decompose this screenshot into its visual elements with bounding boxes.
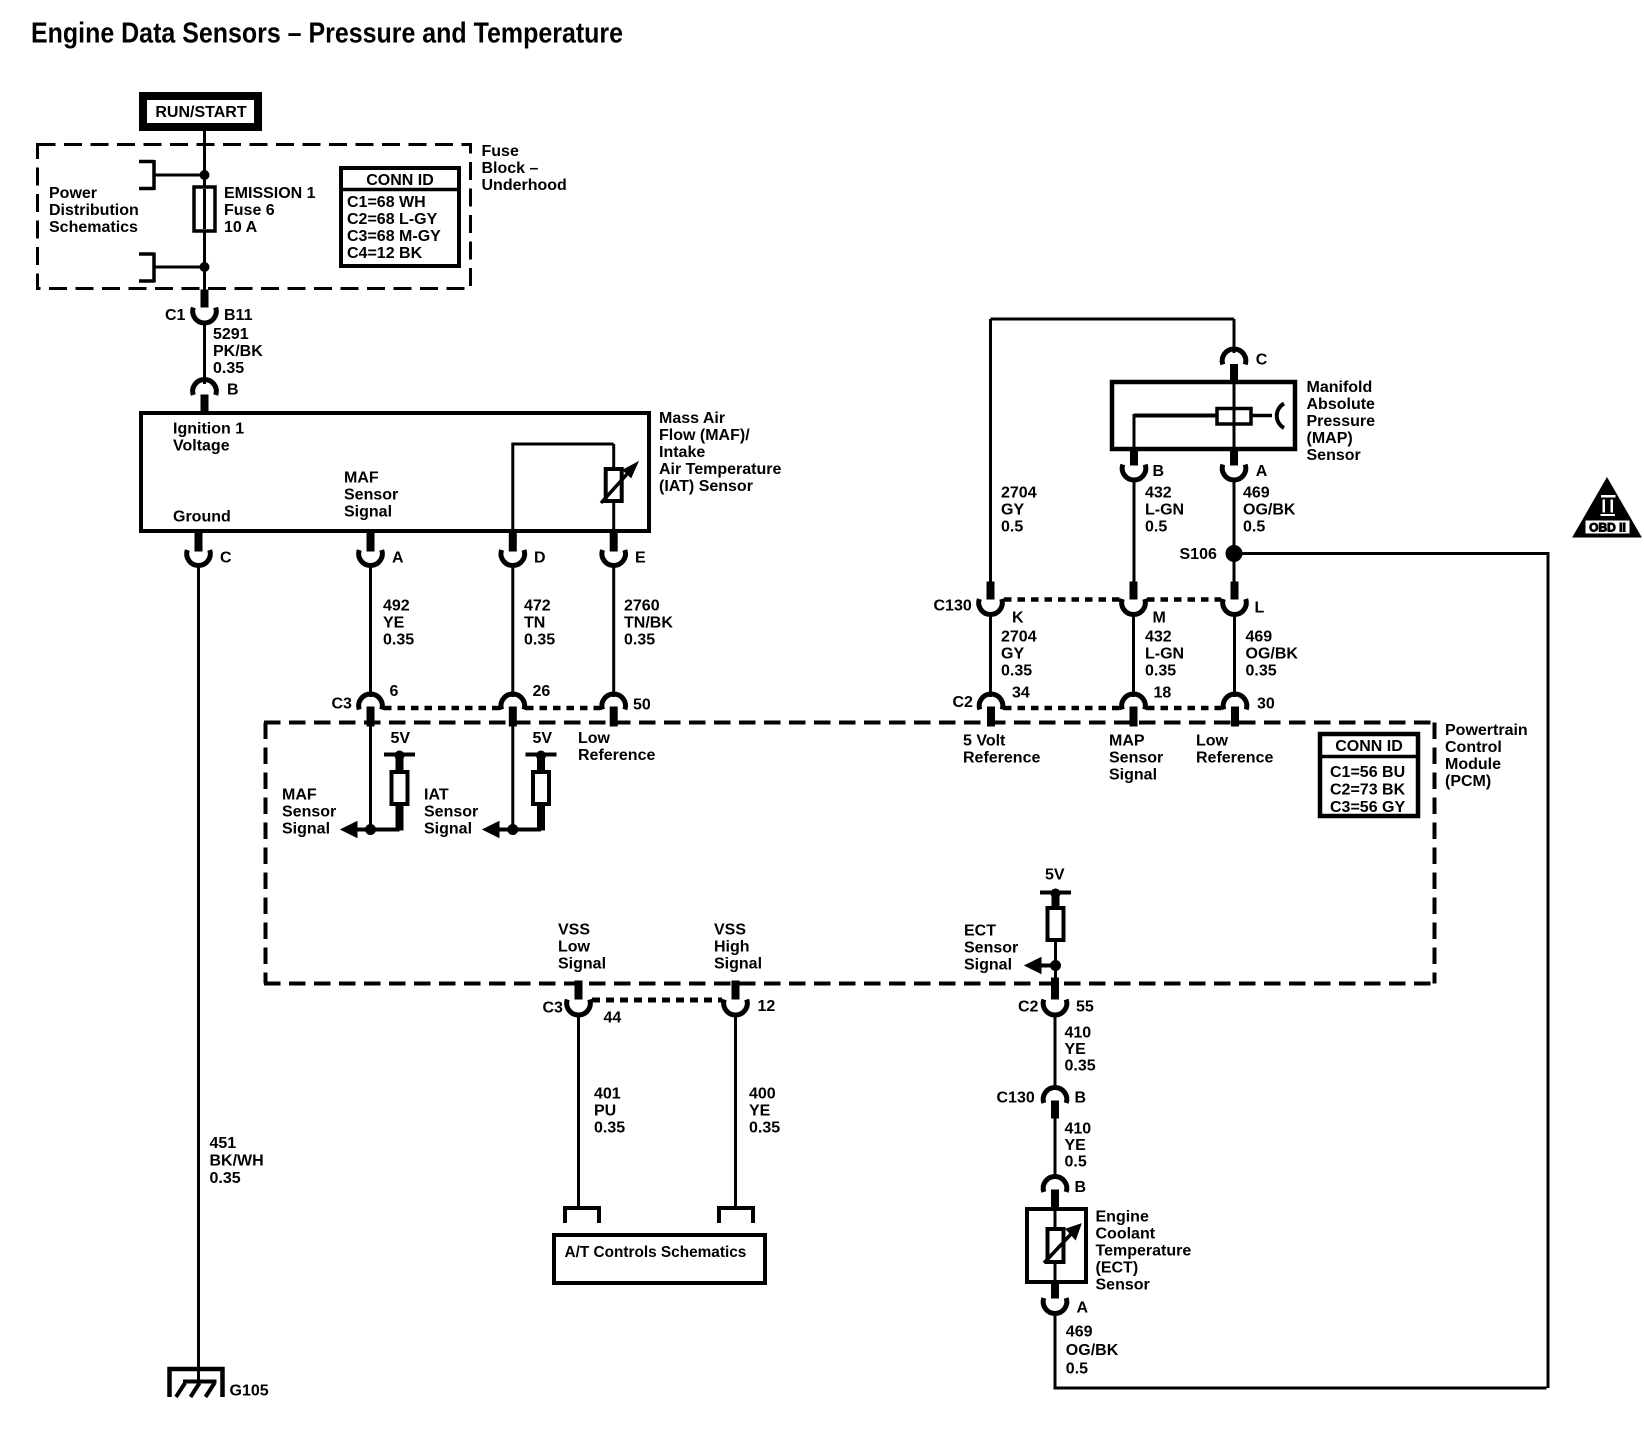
svg-text:26: 26 (533, 683, 551, 700)
svg-text:Sensor: Sensor (964, 940, 1018, 957)
svg-text:Distribution: Distribution (49, 202, 139, 219)
connector pin E of MAF/IAT sensor (602, 533, 626, 566)
svg-text:0.5: 0.5 (1145, 519, 1167, 536)
terminal bracket VSS low (565, 1208, 599, 1223)
svg-text:Fuse: Fuse (482, 143, 519, 160)
node junction at fuse top (200, 171, 209, 180)
svg-text:432: 432 (1145, 629, 1172, 646)
connector pin A of MAF/IAT sensor (359, 533, 383, 566)
resistor MAF pull-up (392, 772, 408, 830)
svg-text:492: 492 (383, 598, 410, 615)
svg-text:2704: 2704 (1001, 485, 1037, 502)
connector C2 pin 34 (979, 694, 1003, 726)
svg-text:5V: 5V (1045, 867, 1065, 884)
connector C3 body dotted (VSS) (592, 998, 722, 1003)
wire 5291 PK/BK 0.35 (203, 321, 206, 385)
svg-text:2760: 2760 (624, 598, 660, 615)
svg-text:MAF: MAF (282, 787, 317, 804)
svg-text:Low: Low (578, 730, 611, 747)
svg-text:OBD II: OBD II (1589, 521, 1626, 535)
svg-text:Powertrain: Powertrain (1445, 722, 1528, 739)
svg-text:C2: C2 (953, 694, 974, 711)
connector C3 pin 6 (359, 694, 383, 726)
svg-text:TN/BK: TN/BK (624, 615, 673, 632)
svg-text:Module: Module (1445, 756, 1501, 773)
svg-text:B11: B11 (224, 307, 253, 324)
wire S106 to ECT low reference (right loop) (1055, 552, 1548, 1388)
label fuse block (482, 143, 567, 194)
svg-text:Manifold: Manifold (1307, 379, 1373, 396)
svg-text:469: 469 (1243, 485, 1270, 502)
connector C1 pin B11 (193, 290, 217, 323)
svg-text:C: C (220, 550, 232, 567)
svg-text:50: 50 (633, 697, 651, 714)
svg-text:55: 55 (1076, 999, 1094, 1016)
svg-text:0.35: 0.35 (383, 632, 414, 649)
svg-text:C2=68 L-GY: C2=68 L-GY (347, 211, 438, 228)
wire IAT signal to junction (499, 726, 541, 830)
MAP vacuum port arc (1277, 404, 1284, 429)
svg-text:Low: Low (558, 939, 591, 956)
connector pin A of MAP sensor (1222, 451, 1246, 480)
splice S106 (1226, 546, 1242, 562)
svg-text:Air Temperature: Air Temperature (659, 461, 782, 478)
terminal bracket VSS high (719, 1208, 753, 1223)
svg-text:Signal: Signal (424, 821, 472, 838)
svg-text:5V: 5V (391, 730, 411, 747)
svg-text:YE: YE (1065, 1041, 1087, 1058)
svg-text:Intake: Intake (659, 444, 705, 461)
MAP sensor box (1112, 382, 1295, 449)
svg-text:Coolant: Coolant (1096, 1226, 1156, 1243)
wire 5V reference feed to MAP (991, 319, 1235, 583)
svg-text:Power: Power (49, 185, 97, 202)
svg-text:Sensor: Sensor (1109, 750, 1163, 767)
connector pin B into MAF sensor (193, 379, 217, 411)
svg-text:C4=12 BK: C4=12 BK (347, 245, 423, 262)
wire 410 YE 0.5 (1054, 1118, 1057, 1179)
svg-text:MAF: MAF (344, 470, 379, 487)
connector pin C of MAP sensor (1222, 349, 1246, 381)
svg-text:B: B (1075, 1090, 1087, 1107)
svg-text:Fuse 6: Fuse 6 (224, 202, 275, 219)
svg-text:12: 12 (758, 998, 776, 1015)
svg-text:VSS: VSS (558, 922, 590, 939)
svg-text:18: 18 (1154, 685, 1172, 702)
CONN ID table (PCM) (1320, 734, 1418, 816)
MAP pressure element (1217, 409, 1251, 425)
ECT sensor box (1027, 1209, 1086, 1282)
svg-text:Temperature: Temperature (1096, 1243, 1192, 1260)
svg-text:OG/BK: OG/BK (1243, 502, 1296, 519)
svg-text:YE: YE (749, 1103, 771, 1120)
svg-text:401: 401 (594, 1086, 621, 1103)
svg-text:400: 400 (749, 1086, 776, 1103)
resistor ECT pull-up (1048, 908, 1064, 940)
node junction at fuse bottom (200, 263, 209, 272)
svg-text:PU: PU (594, 1103, 616, 1120)
wire 432 L-GN 0.5 (1133, 478, 1136, 584)
wire 2760 TN/BK 0.35 (612, 563, 615, 697)
svg-text:432: 432 (1145, 485, 1172, 502)
svg-text:Signal: Signal (282, 821, 330, 838)
svg-text:5V: 5V (533, 730, 553, 747)
svg-text:A/T Controls Schematics: A/T Controls Schematics (565, 1244, 747, 1261)
svg-text:Engine: Engine (1096, 1209, 1149, 1226)
svg-text:Ground: Ground (173, 509, 231, 526)
svg-text:IAT: IAT (424, 787, 449, 804)
svg-text:B: B (1153, 463, 1165, 480)
svg-text:0.35: 0.35 (524, 632, 555, 649)
label low reference (pin 50) (578, 730, 655, 764)
svg-text:410: 410 (1065, 1121, 1092, 1138)
svg-text:Low: Low (1196, 733, 1229, 750)
CONN ID table (fuse block) (341, 168, 459, 266)
svg-text:Schematics: Schematics (49, 219, 138, 236)
svg-text:0.5: 0.5 (1243, 519, 1265, 536)
svg-text:469: 469 (1066, 1324, 1093, 1341)
svg-text:0.35: 0.35 (1246, 663, 1277, 680)
svg-text:MAP: MAP (1109, 733, 1145, 750)
svg-text:Voltage: Voltage (173, 438, 230, 455)
wire 469 OG/BK 0.5 (1233, 478, 1236, 584)
svg-text:Signal: Signal (714, 956, 762, 973)
svg-text:C3: C3 (332, 696, 353, 713)
wire 469 OG/BK 0.5 (ECT low ref) (1054, 1311, 1057, 1390)
svg-text:C2: C2 (1018, 999, 1039, 1016)
svg-text:C3=56 GY: C3=56 GY (1330, 799, 1405, 816)
labels PCM pins (963, 733, 1273, 784)
svg-text:Signal: Signal (964, 957, 1012, 974)
svg-text:VSS: VSS (714, 922, 746, 939)
svg-text:(IAT) Sensor: (IAT) Sensor (659, 478, 753, 495)
svg-text:Signal: Signal (1109, 767, 1157, 784)
svg-text:C: C (1256, 352, 1268, 369)
node junction ECT signal (1051, 961, 1061, 971)
svg-text:CONN ID: CONN ID (1335, 738, 1403, 755)
svg-text:CONN ID: CONN ID (366, 172, 434, 189)
svg-text:Flow (MAF)/: Flow (MAF)/ (659, 427, 750, 444)
wire ignition feed from RUN/START through fuse (203, 131, 206, 292)
svg-text:5 Volt: 5 Volt (963, 733, 1006, 750)
svg-text:C130: C130 (934, 598, 972, 615)
svg-text:YE: YE (383, 615, 405, 632)
svg-text:Sensor: Sensor (282, 804, 336, 821)
5V supply (MAF pull-up) (384, 751, 415, 772)
svg-text:High: High (714, 939, 750, 956)
wire 401 PU 0.35 (577, 1013, 580, 1207)
svg-text:EMISSION 1: EMISSION 1 (224, 185, 316, 202)
svg-text:Pressure: Pressure (1307, 413, 1376, 430)
svg-text:C3=68 M-GY: C3=68 M-GY (347, 228, 441, 245)
svg-text:C1=68 WH: C1=68 WH (347, 194, 426, 211)
connector pin A of ECT sensor (1043, 1282, 1067, 1314)
connector C2 pin 18 (1122, 694, 1146, 726)
MAP internal wiring (1134, 414, 1272, 451)
svg-text:C1: C1 (165, 307, 186, 324)
svg-text:OG/BK: OG/BK (1066, 1342, 1119, 1359)
svg-text:5291: 5291 (213, 326, 249, 343)
wire MAF signal to junction (357, 726, 400, 830)
wire 400 YE 0.35 (734, 1013, 737, 1207)
arrow ECT sensor signal (1025, 958, 1041, 974)
svg-text:Reference: Reference (963, 750, 1040, 767)
svg-text:410: 410 (1065, 1025, 1092, 1042)
svg-text:Signal: Signal (558, 956, 606, 973)
svg-text:Reference: Reference (578, 747, 655, 764)
connector C130 pin M (1122, 582, 1146, 615)
svg-text:L-GN: L-GN (1145, 646, 1184, 663)
wire 432 L-GN 0.35 (1132, 612, 1135, 697)
svg-text:D: D (534, 550, 546, 567)
svg-text:G105: G105 (230, 1383, 269, 1400)
svg-text:0.35: 0.35 (1065, 1058, 1096, 1075)
svg-text:M: M (1153, 610, 1166, 627)
switch box RUN/START (143, 96, 258, 127)
svg-text:Engine Data Sensors – Pressure: Engine Data Sensors – Pressure and Tempe… (31, 18, 623, 50)
svg-text:0.35: 0.35 (1001, 663, 1032, 680)
svg-text:Sensor: Sensor (1307, 447, 1361, 464)
label power distribution (49, 185, 139, 236)
svg-text:0.5: 0.5 (1001, 519, 1023, 536)
PCM dashed box border (264, 723, 1436, 984)
svg-text:S106: S106 (1180, 546, 1217, 563)
connector C2 pin 30 (1223, 694, 1247, 726)
svg-text:ECT: ECT (964, 923, 996, 940)
svg-text:0.5: 0.5 (1065, 1154, 1087, 1171)
MAF/IAT sensor box (141, 413, 649, 531)
svg-text:OG/BK: OG/BK (1246, 646, 1299, 663)
svg-text:PK/BK: PK/BK (213, 343, 263, 360)
svg-text:C130: C130 (997, 1090, 1035, 1107)
A/T controls schematics box (554, 1235, 765, 1283)
svg-text:34: 34 (1012, 685, 1030, 702)
svg-text:GY: GY (1001, 646, 1024, 663)
svg-text:Ignition 1: Ignition 1 (173, 421, 244, 438)
fuse EMISSION 1 Fuse 6 10A (194, 187, 215, 231)
svg-text:E: E (635, 550, 646, 567)
wire ECT signal (1041, 940, 1056, 981)
wire through pressure element (1233, 382, 1236, 451)
svg-text:10 A: 10 A (224, 219, 258, 236)
label PCM (1445, 722, 1528, 790)
svg-text:Sensor: Sensor (344, 487, 398, 504)
svg-text:Sensor: Sensor (424, 804, 478, 821)
svg-text:Mass Air: Mass Air (659, 410, 725, 427)
svg-text:469: 469 (1246, 629, 1273, 646)
arrow MAF sensor signal (341, 822, 357, 838)
connector C130 body dotted (1004, 597, 1221, 602)
svg-text:L-GN: L-GN (1145, 502, 1184, 519)
connector pin C of MAF/IAT sensor (187, 533, 211, 566)
svg-text:0.35: 0.35 (213, 360, 244, 377)
connector C130 pin K (979, 582, 1003, 615)
svg-text:(MAP): (MAP) (1307, 430, 1353, 447)
svg-text:Signal: Signal (344, 504, 392, 521)
svg-text:TN: TN (524, 615, 545, 632)
svg-text:Control: Control (1445, 739, 1502, 756)
svg-text:44: 44 (604, 1010, 622, 1027)
wire ground 451 BK/WH to G105 (197, 563, 200, 1382)
svg-text:RUN/START: RUN/START (155, 104, 246, 121)
5V supply (ECT pull-up) (1040, 889, 1071, 909)
connector pin B of MAP sensor (1122, 451, 1146, 480)
svg-text:472: 472 (524, 598, 551, 615)
connector C3 pin 12 (724, 981, 748, 1015)
svg-text:0.5: 0.5 (1066, 1361, 1088, 1378)
connector C3 pin 26 (501, 694, 525, 726)
svg-text:0.35: 0.35 (749, 1120, 780, 1137)
svg-text:2704: 2704 (1001, 629, 1037, 646)
svg-text:0.35: 0.35 (210, 1170, 241, 1187)
node junction MAF signal (366, 825, 376, 835)
ground G105 (170, 1369, 223, 1397)
connector C2 pin 55 (1043, 978, 1067, 1015)
fuse block underhood dashed box (38, 145, 471, 289)
svg-text:C3: C3 (543, 1000, 564, 1017)
connector C130 pin L (1223, 582, 1247, 615)
wire 2704 GY 0.35 (989, 612, 992, 697)
connector C3 pin 50 (602, 694, 626, 726)
svg-text:GY: GY (1001, 502, 1024, 519)
svg-text:Reference: Reference (1196, 750, 1273, 767)
svg-text:Absolute: Absolute (1307, 396, 1376, 413)
svg-text:0.35: 0.35 (624, 632, 655, 649)
node junction IAT signal (508, 825, 518, 835)
internal IAT wiring (511, 444, 613, 531)
connector C3 pin 44 (567, 981, 591, 1015)
wire 492 YE 0.35 (369, 563, 372, 697)
wire 410 YE 0.35 (1054, 1013, 1057, 1091)
connector C3 body dotted (384, 706, 600, 711)
terminal bracket to power distribution (top) (139, 160, 205, 190)
wire 469 OG/BK 0.35 (1233, 612, 1236, 697)
terminal bracket to power distribution (bottom) (139, 253, 205, 283)
svg-text:K: K (1012, 610, 1024, 627)
ECT thermistor (1044, 1211, 1081, 1282)
svg-text:(ECT): (ECT) (1096, 1260, 1139, 1277)
svg-text:Sensor: Sensor (1096, 1277, 1150, 1294)
svg-text:(PCM): (PCM) (1445, 773, 1491, 790)
svg-text:0.35: 0.35 (594, 1120, 625, 1137)
svg-text:YE: YE (1065, 1137, 1087, 1154)
connector C2 body dotted (1004, 706, 1221, 711)
5V supply (IAT pull-up) (526, 751, 557, 772)
svg-text:Block –: Block – (482, 160, 539, 177)
wire 472 TN 0.35 (511, 563, 514, 697)
IAT thermistor (601, 462, 638, 503)
svg-text:Underhood: Underhood (482, 177, 567, 194)
resistor IAT pull-up (533, 772, 549, 830)
connector pin B of ECT sensor (1043, 1176, 1067, 1208)
svg-text:451: 451 (210, 1135, 237, 1152)
svg-text:A: A (1077, 1300, 1089, 1317)
svg-text:C1=56 BU: C1=56 BU (1330, 764, 1405, 781)
svg-text:A: A (1256, 463, 1268, 480)
label MAF/IAT sensor (659, 410, 782, 495)
wire 2704 GY 0.5 (1001, 485, 1037, 536)
svg-text:L: L (1255, 600, 1265, 617)
svg-text:BK/WH: BK/WH (210, 1153, 264, 1170)
svg-text:0.35: 0.35 (1145, 663, 1176, 680)
svg-text:A: A (392, 550, 404, 567)
svg-text:B: B (1075, 1179, 1087, 1196)
connector pin D of MAF/IAT sensor (501, 533, 525, 566)
OBD II symbol (1573, 478, 1641, 537)
svg-text:30: 30 (1257, 696, 1275, 713)
svg-text:6: 6 (390, 683, 399, 700)
svg-text:C2=73 BK: C2=73 BK (1330, 782, 1406, 799)
arrow IAT sensor signal (483, 822, 499, 838)
connector C130 pin B (1043, 1087, 1067, 1118)
svg-text:B: B (227, 382, 239, 399)
